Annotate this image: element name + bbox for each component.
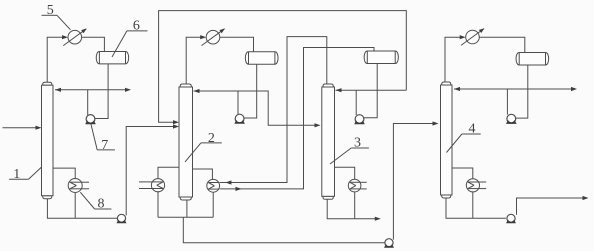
svg-text:7: 7: [101, 138, 108, 153]
svg-text:2: 2: [208, 131, 215, 146]
